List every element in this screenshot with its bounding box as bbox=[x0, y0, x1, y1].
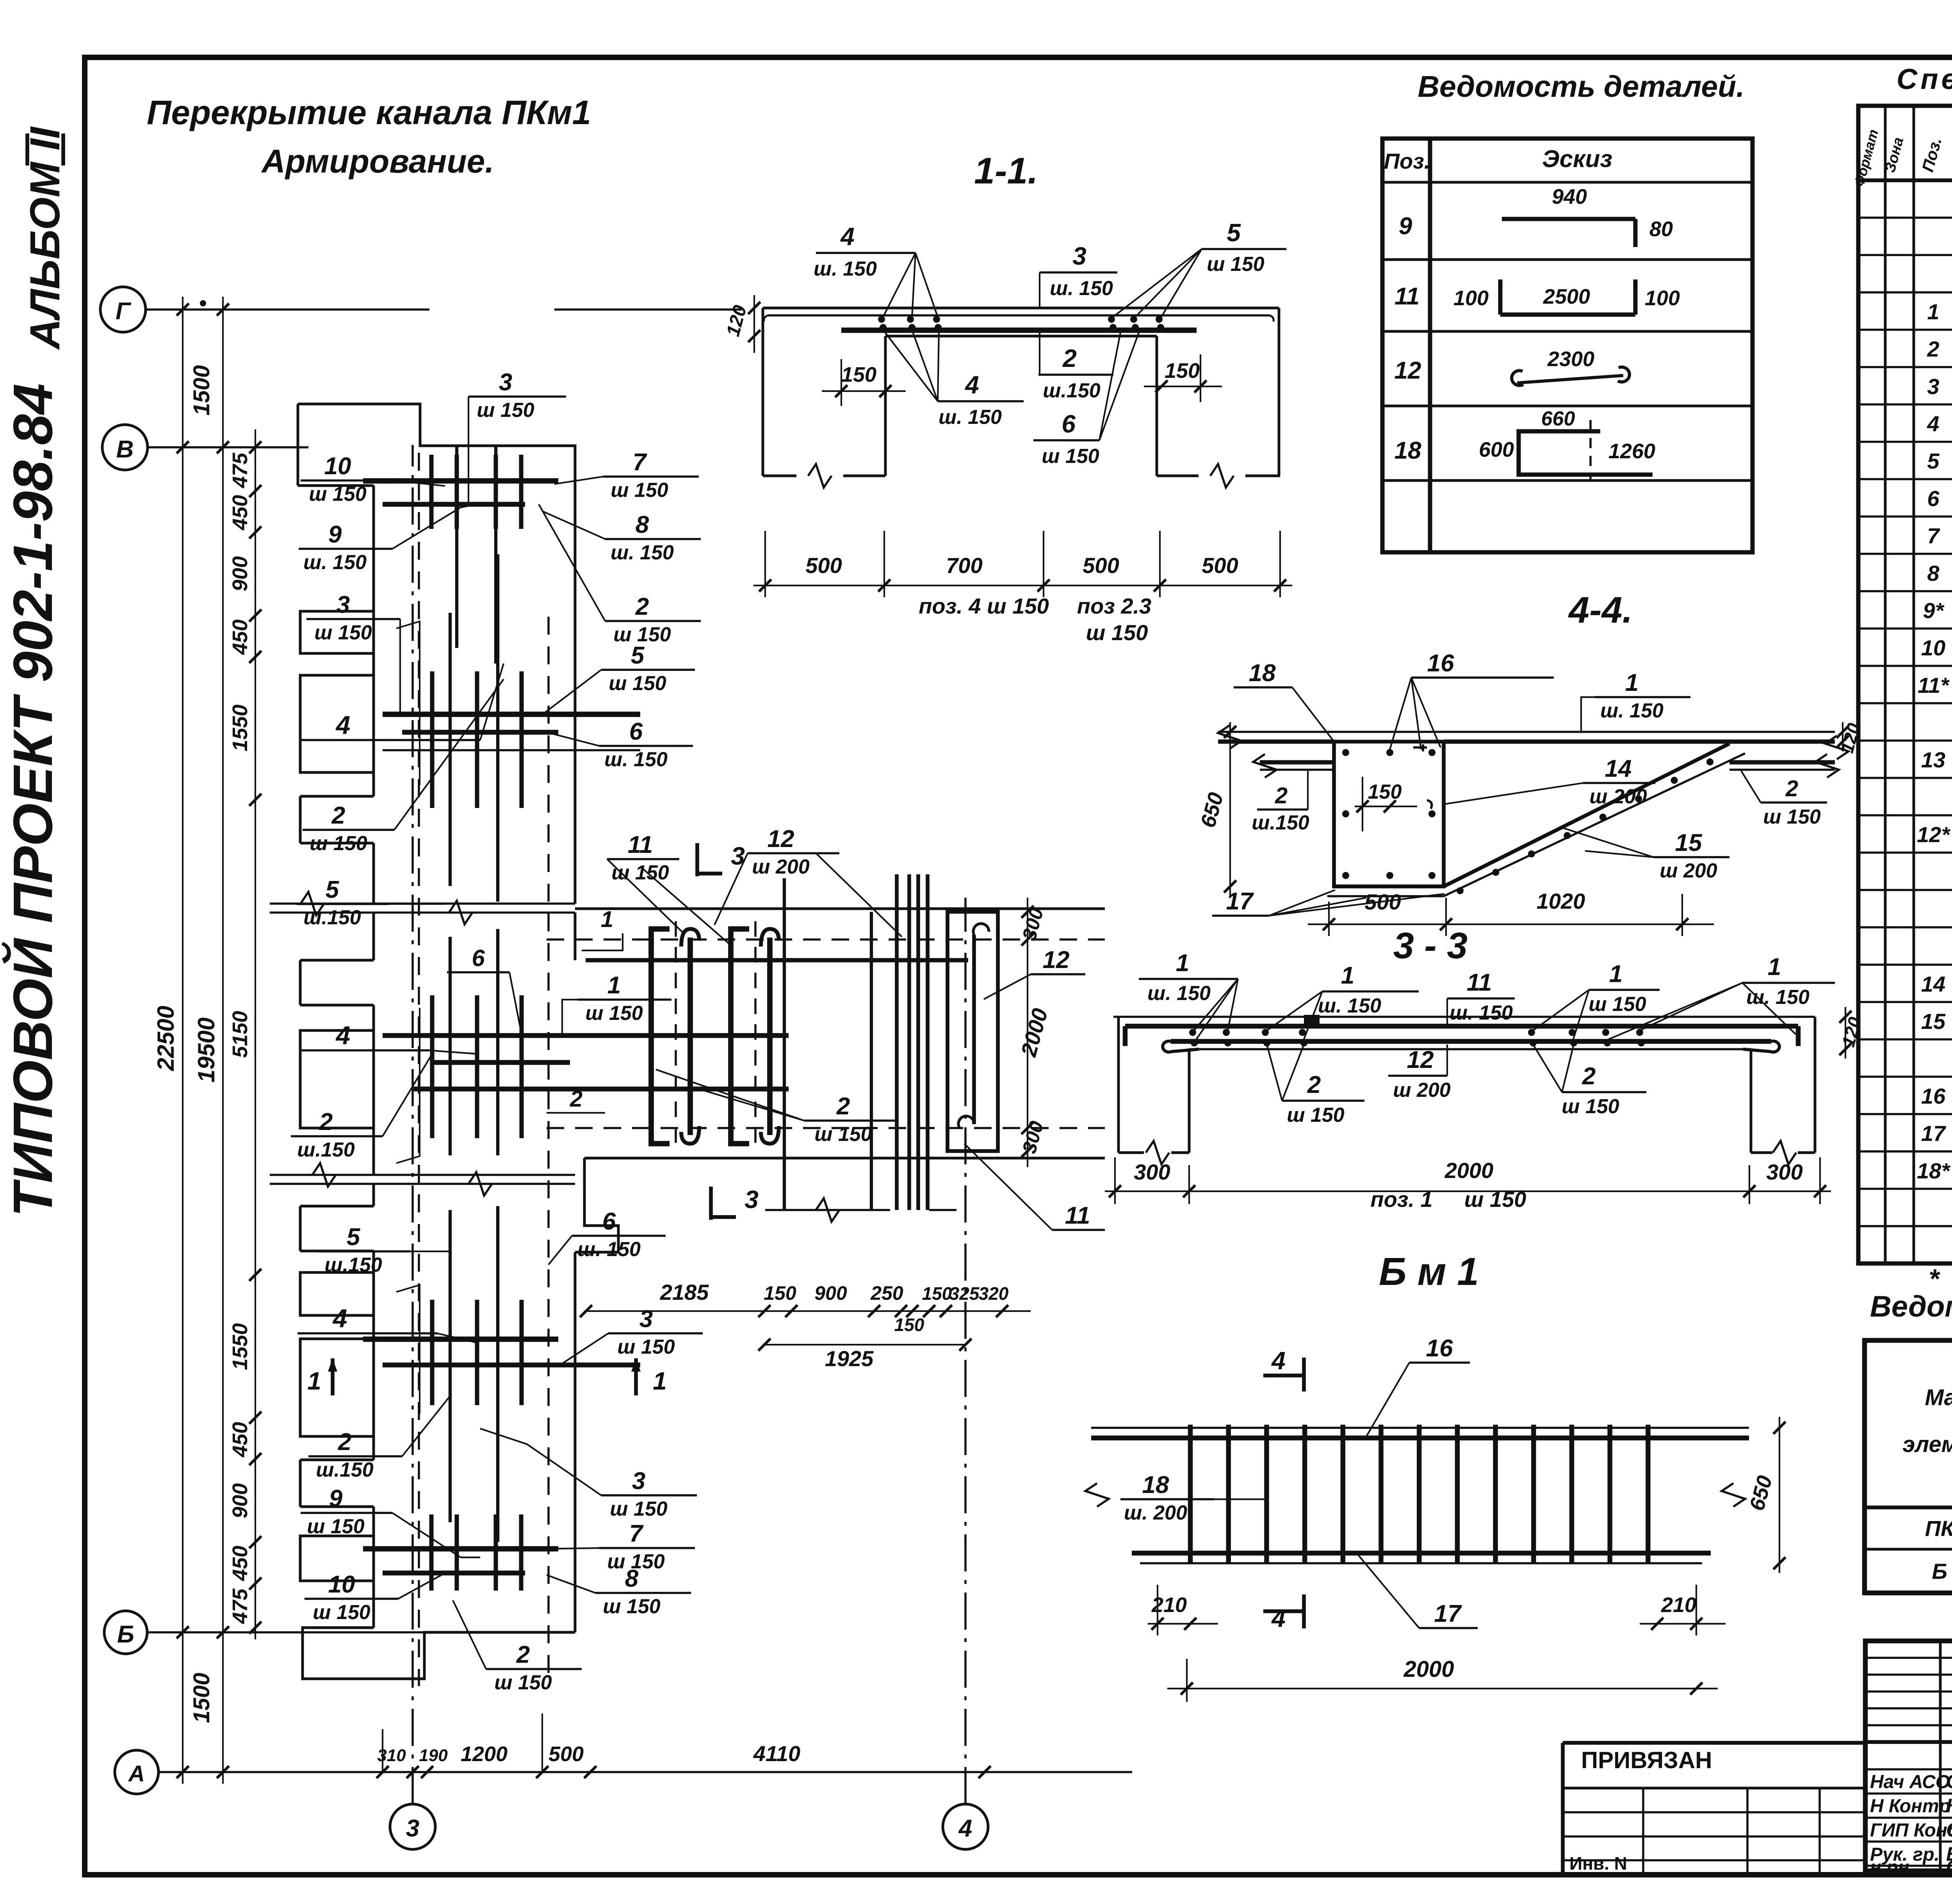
svg-text:Г: Г bbox=[116, 298, 132, 325]
section 3-3 top bar with end bends bbox=[1125, 1024, 1798, 1029]
section 1-1 top rebar thin bbox=[768, 314, 1270, 317]
svg-text:4: 4 bbox=[964, 371, 979, 399]
svg-text:ш. 150: ш. 150 bbox=[814, 258, 877, 280]
svg-text:1550: 1550 bbox=[228, 1323, 252, 1370]
beam box stirrup marks bbox=[1413, 744, 1427, 751]
svg-text:ш 150: ш 150 bbox=[309, 483, 367, 505]
svg-text:11: 11 bbox=[628, 831, 653, 858]
dimension line 19500 bbox=[222, 297, 224, 1784]
svg-text:100: 100 bbox=[1645, 286, 1680, 310]
svg-text:300: 300 bbox=[1018, 906, 1048, 943]
svg-text:5150: 5150 bbox=[228, 1011, 252, 1058]
svg-text:940: 940 bbox=[1552, 185, 1587, 208]
svg-text:ш 150: ш 150 bbox=[1287, 1104, 1345, 1126]
svg-text:650: 650 bbox=[1745, 1473, 1777, 1513]
svg-text:300: 300 bbox=[1018, 1119, 1048, 1156]
svg-text:4: 4 bbox=[1927, 411, 1939, 436]
svg-text:1: 1 bbox=[1768, 954, 1781, 980]
section 1-1 wall bottom cuts bbox=[763, 475, 796, 477]
Bm1 dimension 650 bbox=[1779, 1417, 1780, 1573]
svg-text:900: 900 bbox=[814, 1282, 847, 1304]
svg-text:12*: 12* bbox=[1917, 822, 1950, 847]
svg-text:ш. 150: ш. 150 bbox=[303, 551, 367, 574]
extension bottom break bbox=[816, 1198, 839, 1222]
svg-text:1020: 1020 bbox=[1537, 889, 1585, 913]
dimension 2185 row bbox=[584, 1310, 1031, 1312]
section 3-3 slab bottom edge bbox=[1189, 1048, 1751, 1050]
Bm1 bottom chord bbox=[1132, 1551, 1711, 1555]
svg-text:5: 5 bbox=[1227, 219, 1241, 247]
svg-text:Инв. N: Инв. N bbox=[1569, 1853, 1627, 1874]
svg-text:ш 150: ш 150 bbox=[1589, 993, 1646, 1016]
svg-text:16: 16 bbox=[1426, 1335, 1453, 1362]
svg-text:18: 18 bbox=[1249, 660, 1276, 687]
svg-text:4: 4 bbox=[335, 1021, 351, 1050]
plan outline left wall upper bbox=[297, 404, 299, 486]
axis line A / bottom dimension line bbox=[159, 1771, 1132, 1773]
Bm1 dimension 210 left bbox=[1148, 1623, 1218, 1625]
svg-text:500: 500 bbox=[1364, 890, 1401, 914]
svg-text:12: 12 bbox=[768, 826, 794, 852]
svg-text:Н Контр: Н Контр bbox=[1870, 1796, 1950, 1817]
svg-text:4110: 4110 bbox=[753, 1741, 800, 1766]
svg-text:660: 660 bbox=[1541, 407, 1575, 430]
svg-text:ш. 150: ш. 150 bbox=[1050, 277, 1113, 300]
svg-text:150: 150 bbox=[894, 1315, 924, 1335]
rebar cluster upper middle bbox=[383, 712, 640, 717]
svg-text:1: 1 bbox=[1927, 299, 1939, 324]
svg-text:19500: 19500 bbox=[193, 1018, 219, 1083]
svg-text:ш 150: ш 150 bbox=[610, 1498, 668, 1520]
axis circle 4 bottom bbox=[943, 1804, 988, 1849]
axis 3 center line bbox=[411, 445, 414, 1804]
rebar cluster at axis V bbox=[363, 478, 558, 484]
break line upper (5150 gap) bbox=[270, 902, 575, 905]
svg-text:н рн: н рн bbox=[1870, 1857, 1909, 1878]
axis line B bbox=[147, 1631, 429, 1634]
hook details small bbox=[396, 621, 420, 785]
axis circle G bbox=[100, 287, 146, 332]
svg-text:2: 2 bbox=[331, 802, 345, 829]
strip dashed channel walls bbox=[418, 453, 420, 1686]
svg-text:3: 3 bbox=[1927, 374, 1939, 399]
svg-text:ш 200: ш 200 bbox=[1393, 1079, 1451, 1101]
svg-text:2000: 2000 bbox=[1403, 1657, 1454, 1682]
svg-text:2500: 2500 bbox=[1543, 285, 1590, 308]
dimension 120 sec33 right bbox=[1845, 1007, 1846, 1059]
svg-text:500: 500 bbox=[805, 553, 842, 578]
section 1-1 thick bar pos2 bbox=[841, 327, 1197, 333]
svg-text:7: 7 bbox=[629, 1520, 644, 1547]
svg-text:3: 3 bbox=[406, 1815, 419, 1842]
svg-text:2: 2 bbox=[1275, 783, 1288, 808]
svg-text:ш. 150: ш. 150 bbox=[1147, 982, 1211, 1005]
svg-text:Б м 1: Б м 1 bbox=[1379, 1250, 1479, 1294]
svg-text:Семенов: Семенов bbox=[1946, 1856, 1952, 1878]
section 4-4 right lower slab lines bbox=[1729, 760, 1835, 764]
svg-text:ш.150: ш.150 bbox=[324, 1254, 382, 1276]
svg-text:11: 11 bbox=[1395, 283, 1419, 310]
svg-text:18*: 18* bbox=[1917, 1158, 1950, 1183]
svg-text:Ведомость деталей.: Ведомость деталей. bbox=[1418, 70, 1744, 103]
svg-text:100: 100 bbox=[1453, 286, 1489, 310]
svg-text:9*: 9* bbox=[1923, 598, 1945, 623]
dimension chain 475-450-900-450-1550-5150 bbox=[255, 429, 256, 1639]
svg-text:150: 150 bbox=[764, 1282, 796, 1304]
svg-text:500: 500 bbox=[1202, 553, 1238, 578]
svg-text:9: 9 bbox=[329, 1485, 343, 1512]
svg-text:10: 10 bbox=[328, 1571, 355, 1598]
svg-text:4: 4 bbox=[958, 1815, 972, 1842]
svg-text:Марка: Марка bbox=[1925, 1385, 1952, 1410]
svg-text:2: 2 bbox=[570, 1086, 582, 1112]
svg-text:310: 310 bbox=[377, 1746, 406, 1765]
svg-text:5: 5 bbox=[1927, 449, 1940, 473]
svg-text:А: А bbox=[128, 1761, 145, 1787]
svg-text:6: 6 bbox=[602, 1208, 616, 1235]
svg-text:ш 150: ш 150 bbox=[314, 621, 372, 644]
svg-text:9: 9 bbox=[1399, 213, 1412, 240]
svg-text:13: 13 bbox=[1921, 747, 1945, 772]
Bm1 top chord bbox=[1091, 1427, 1749, 1429]
section 4-4 lower ledge left bbox=[1260, 760, 1334, 764]
section 4-4 bottom dimensions bbox=[1308, 924, 1714, 925]
svg-text:1: 1 bbox=[307, 1367, 321, 1395]
svg-text:150: 150 bbox=[1165, 359, 1200, 383]
dimension 650 sec44 bbox=[1229, 722, 1231, 898]
svg-text:8: 8 bbox=[1927, 561, 1940, 585]
svg-text:ш. 150: ш. 150 bbox=[1600, 699, 1663, 722]
svg-text:*: * bbox=[1929, 1263, 1940, 1294]
svg-text:3: 3 bbox=[1072, 242, 1086, 270]
svg-text:ш. 150: ш. 150 bbox=[1450, 1002, 1513, 1024]
svg-text:4: 4 bbox=[335, 710, 351, 739]
axis circle V bbox=[102, 425, 148, 470]
svg-text:ш 200: ш 200 bbox=[752, 856, 810, 878]
svg-text:ш 150: ш 150 bbox=[1086, 620, 1148, 645]
dimension 1925 row bbox=[764, 1344, 965, 1345]
svg-text:475: 475 bbox=[228, 1588, 252, 1624]
svg-text:11: 11 bbox=[1065, 1202, 1090, 1229]
svg-text:900: 900 bbox=[228, 1483, 252, 1518]
svg-text:ПК м 1: ПК м 1 bbox=[1925, 1516, 1952, 1541]
details table grid bbox=[1382, 139, 1753, 552]
rebar cluster bottom bbox=[363, 1546, 558, 1552]
svg-text:500: 500 bbox=[1083, 553, 1119, 578]
svg-text:Б м 1: Б м 1 bbox=[1932, 1559, 1952, 1584]
section mark 1 right bbox=[634, 1358, 638, 1395]
svg-text:900: 900 bbox=[228, 556, 252, 591]
svg-text:2: 2 bbox=[836, 1093, 850, 1120]
plan bottom outline bbox=[303, 1628, 575, 1679]
svg-text:300: 300 bbox=[1766, 1160, 1802, 1184]
svg-text:Б: Б bbox=[117, 1621, 134, 1648]
title block left grid bbox=[1939, 1641, 1942, 1871]
svg-text:11: 11 bbox=[1467, 969, 1492, 996]
axis line G bbox=[146, 308, 429, 311]
svg-text:ш.150: ш.150 bbox=[297, 1139, 355, 1161]
svg-text:4: 4 bbox=[840, 222, 855, 251]
section mark 3 mid upper bbox=[695, 843, 699, 876]
section 3-3 rebar dots bbox=[1189, 1029, 1196, 1036]
svg-text:150: 150 bbox=[1368, 781, 1402, 803]
title block big cell line bbox=[1865, 1740, 1952, 1744]
extension dashed verticals bbox=[675, 921, 677, 1144]
svg-text:Спецификация на монолитные: Спецификация на монолитные изделия. bbox=[1897, 63, 1952, 95]
svg-text:10: 10 bbox=[1921, 635, 1945, 660]
Bm1 dimension 2000 bbox=[1167, 1688, 1718, 1689]
section mark 3 mid lower bbox=[709, 1187, 713, 1220]
svg-text:ТИПОВОЙ ПРОЕКТ 902-1-98.84: ТИПОВОЙ ПРОЕКТ 902-1-98.84 bbox=[1, 383, 64, 1217]
extension bottom edge bbox=[584, 1157, 1105, 1160]
svg-text:ш 150: ш 150 bbox=[617, 1336, 675, 1358]
svg-text:2: 2 bbox=[635, 593, 649, 620]
svg-text:14: 14 bbox=[1605, 755, 1632, 782]
svg-text:2000: 2000 bbox=[1016, 1006, 1052, 1060]
dimension line 22500 bbox=[182, 297, 183, 1784]
svg-text:210: 210 bbox=[1661, 1593, 1696, 1617]
svg-text:1: 1 bbox=[1625, 669, 1639, 696]
svg-text:450: 450 bbox=[228, 1422, 252, 1457]
svg-text:450: 450 bbox=[228, 495, 252, 530]
svg-text:450: 450 bbox=[228, 1546, 252, 1581]
privyazan grid bbox=[1563, 1787, 1865, 1790]
svg-text:Поз.: Поз. bbox=[1384, 149, 1430, 173]
axis circle B bbox=[104, 1611, 147, 1654]
svg-text:120: 120 bbox=[723, 303, 751, 338]
svg-text:2: 2 bbox=[1927, 337, 1939, 361]
svg-text:22500: 22500 bbox=[153, 1006, 179, 1071]
svg-text:2: 2 bbox=[1307, 1071, 1321, 1098]
svg-text:15: 15 bbox=[1921, 1009, 1946, 1034]
section 3-3 bottom dimension bbox=[1105, 1190, 1831, 1192]
svg-text:1: 1 bbox=[1609, 961, 1623, 988]
svg-text:2: 2 bbox=[1062, 344, 1077, 372]
svg-text:5: 5 bbox=[631, 642, 645, 669]
svg-text:600: 600 bbox=[1479, 438, 1514, 461]
svg-text:ш. 150: ш. 150 bbox=[577, 1238, 641, 1261]
svg-text:18: 18 bbox=[1395, 437, 1421, 464]
svg-text:Эскиз: Эскиз bbox=[1542, 146, 1612, 173]
svg-text:ш.150: ш.150 bbox=[1043, 379, 1101, 402]
svg-text:80: 80 bbox=[1649, 217, 1673, 241]
svg-text:ш 150: ш 150 bbox=[1763, 806, 1821, 828]
Bm1 section mark 4 bottom bbox=[1302, 1594, 1306, 1628]
beam box corner dots bbox=[1342, 749, 1349, 756]
svg-text:2: 2 bbox=[1582, 1063, 1596, 1090]
svg-text:поз. 4 ш 150: поз. 4 ш 150 bbox=[919, 594, 1049, 618]
svg-text:1: 1 bbox=[607, 972, 621, 999]
svg-text:320: 320 bbox=[979, 1283, 1009, 1304]
extension dashed inner top bbox=[547, 938, 1105, 941]
svg-text:3: 3 bbox=[337, 591, 350, 618]
Bm1 dimension 210 right bbox=[1640, 1623, 1726, 1625]
left teeth notches upper bbox=[372, 486, 375, 611]
svg-text:8: 8 bbox=[636, 511, 649, 538]
dimension 120 sec44 right bbox=[1842, 722, 1843, 751]
svg-text:ш 150: ш 150 bbox=[603, 1595, 661, 1618]
svg-text:ш.150: ш.150 bbox=[1252, 811, 1309, 834]
details row 11 sketch U-bar bbox=[1500, 312, 1635, 317]
svg-text:Сорокин: Сорокин bbox=[1946, 1771, 1952, 1792]
svg-text:5: 5 bbox=[347, 1224, 361, 1251]
svg-text:1925: 1925 bbox=[825, 1346, 874, 1371]
svg-text:ПРИВЯЗАН: ПРИВЯЗАН bbox=[1581, 1747, 1712, 1773]
section 3-3 bottom bar with loop hooks bbox=[1171, 1039, 1771, 1044]
svg-text:150: 150 bbox=[922, 1283, 952, 1304]
break line lower bbox=[270, 1174, 575, 1176]
svg-text:Нач АСО: Нач АСО bbox=[1870, 1772, 1950, 1792]
svg-text:12: 12 bbox=[1395, 357, 1421, 384]
section 4-4 slab lines bbox=[1218, 731, 1835, 733]
svg-text:поз 2.3: поз 2.3 bbox=[1077, 594, 1151, 618]
svg-text:8: 8 bbox=[625, 1565, 639, 1592]
details row 18 sketch bent bar bbox=[1519, 431, 1653, 475]
axis circle A bbox=[115, 1750, 159, 1794]
svg-text:поз. 1: поз. 1 bbox=[1370, 1187, 1432, 1212]
svg-text:1260: 1260 bbox=[1608, 440, 1655, 463]
svg-text:11*: 11* bbox=[1918, 673, 1950, 698]
svg-text:1: 1 bbox=[1176, 950, 1189, 977]
steel table grid bbox=[1865, 1340, 1952, 1593]
stirrup frame 2 with hooks bbox=[731, 929, 749, 1144]
svg-text:9: 9 bbox=[328, 521, 342, 548]
section 1-1 wall inner faces bbox=[884, 336, 887, 476]
extension horizontal bars bbox=[586, 958, 968, 962]
svg-text:2185: 2185 bbox=[660, 1280, 709, 1304]
svg-text:1550: 1550 bbox=[228, 705, 252, 751]
svg-text:17: 17 bbox=[1921, 1121, 1947, 1146]
plan outline upper block bbox=[298, 404, 575, 904]
svg-text:16: 16 bbox=[1921, 1084, 1946, 1108]
section 1-1 bottom dimension line bbox=[753, 585, 1292, 586]
svg-text:650: 650 bbox=[1196, 790, 1228, 830]
svg-text:ш 200: ш 200 bbox=[1660, 859, 1717, 882]
svg-text:210: 210 bbox=[1151, 1593, 1187, 1617]
svg-text:ш. 150: ш. 150 bbox=[1746, 986, 1810, 1009]
svg-text:3 - 3: 3 - 3 bbox=[1393, 925, 1468, 966]
plan outline lower block bbox=[372, 1184, 375, 1206]
svg-text:2: 2 bbox=[516, 1641, 530, 1668]
svg-text:ш 150: ш 150 bbox=[585, 1002, 643, 1025]
svg-text:ш.150: ш.150 bbox=[303, 906, 361, 929]
plan right edge lower bbox=[574, 1252, 577, 1632]
svg-text:1: 1 bbox=[601, 907, 613, 932]
svg-text:ш 150: ш 150 bbox=[313, 1601, 370, 1624]
svg-text:ш 150: ш 150 bbox=[307, 1515, 365, 1538]
section 3-3 right wall bbox=[1814, 1017, 1817, 1153]
axis circle 3 bottom bbox=[390, 1804, 435, 1849]
svg-text:12: 12 bbox=[1407, 1046, 1434, 1073]
svg-text:7: 7 bbox=[1927, 523, 1940, 548]
svg-text:3: 3 bbox=[632, 1468, 645, 1495]
svg-text:1-1.: 1-1. bbox=[974, 150, 1038, 192]
svg-text:3: 3 bbox=[744, 1185, 759, 1214]
svg-text:4: 4 bbox=[1271, 1604, 1286, 1632]
svg-text:ш.150: ш.150 bbox=[316, 1459, 374, 1481]
privyazan box bbox=[1563, 1741, 1865, 1745]
svg-text:475: 475 bbox=[228, 452, 252, 488]
svg-text:17: 17 bbox=[1434, 1600, 1462, 1627]
section 3-3 left wall bbox=[1117, 1017, 1120, 1153]
svg-text:ш. 150: ш. 150 bbox=[939, 406, 1002, 429]
svg-text:2: 2 bbox=[1785, 776, 1798, 801]
section 4-4 sloped bars bbox=[1444, 744, 1729, 886]
svg-text:ш 150: ш 150 bbox=[1042, 445, 1099, 468]
svg-text:7: 7 bbox=[633, 449, 647, 476]
section 4-4 beam box bbox=[1334, 742, 1444, 886]
svg-text:10: 10 bbox=[324, 453, 351, 480]
svg-text:14: 14 bbox=[1921, 972, 1945, 996]
svg-text:6: 6 bbox=[629, 718, 643, 745]
axis 4 center line bbox=[964, 898, 967, 1804]
svg-text:1200: 1200 bbox=[461, 1742, 508, 1766]
section 1-1 rebar dots bbox=[878, 316, 885, 323]
svg-text:В: В bbox=[116, 436, 134, 463]
section 1-1 slab outline bbox=[763, 307, 1279, 310]
bar 12 rectangle right bbox=[948, 912, 998, 1151]
extension top edge bbox=[575, 908, 1105, 910]
svg-text:Перекрытие канала ПКм1: Перекрытие канала ПКм1 bbox=[147, 94, 591, 132]
svg-text:325: 325 bbox=[949, 1283, 980, 1304]
svg-text:3: 3 bbox=[499, 369, 512, 396]
svg-text:ш 150: ш 150 bbox=[814, 1123, 872, 1146]
svg-text:700: 700 bbox=[946, 553, 982, 578]
specification table bbox=[1858, 106, 1952, 1263]
Bm1 end breaks bbox=[1085, 1483, 1109, 1507]
extension long vertical bars bbox=[783, 878, 786, 1210]
bar 12 hook bar inside bbox=[972, 935, 976, 1124]
svg-text:Армирование.: Армирование. bbox=[261, 143, 494, 180]
plan outline middle block bbox=[372, 913, 375, 960]
svg-text:1: 1 bbox=[1341, 962, 1354, 989]
svg-text:5: 5 bbox=[326, 876, 340, 903]
svg-text:ш 150: ш 150 bbox=[310, 832, 367, 855]
svg-text:12: 12 bbox=[1043, 947, 1070, 973]
axis line V bbox=[148, 446, 308, 448]
svg-text:ш 150: ш 150 bbox=[1464, 1187, 1526, 1212]
svg-text:1: 1 bbox=[653, 1367, 667, 1395]
svg-text:2: 2 bbox=[319, 1109, 333, 1135]
svg-text:элемента: элемента bbox=[1902, 1432, 1952, 1457]
extension right dimension 300-2000-300 bbox=[1027, 898, 1028, 1167]
section 1-1 slab bottom mid span bbox=[885, 335, 1157, 338]
svg-text:ш 150: ш 150 bbox=[1207, 253, 1265, 276]
svg-text:4: 4 bbox=[1271, 1347, 1286, 1375]
stirrup frame 1 with hooks bbox=[651, 929, 670, 1144]
section 4-4 bottom edge below box bbox=[1334, 884, 1444, 888]
svg-text:4: 4 bbox=[332, 1304, 347, 1333]
svg-text:ш. 150: ш. 150 bbox=[1318, 995, 1381, 1017]
svg-text:ш 150: ш 150 bbox=[611, 479, 668, 502]
svg-text:ш 150: ш 150 bbox=[1562, 1095, 1619, 1118]
svg-text:6: 6 bbox=[1927, 486, 1940, 511]
svg-text:ш 150: ш 150 bbox=[477, 399, 534, 422]
svg-text:6: 6 bbox=[472, 945, 485, 971]
Bm1 section mark 4 top bbox=[1302, 1358, 1306, 1392]
plan right edge middle bbox=[574, 913, 577, 960]
svg-text:2300: 2300 bbox=[1547, 347, 1594, 371]
svg-text:Ковалинина: Ковалинина bbox=[1946, 1795, 1952, 1817]
svg-text:ш. 200: ш. 200 bbox=[1124, 1502, 1187, 1524]
svg-text:ш. 150: ш. 150 bbox=[611, 541, 674, 564]
svg-text:ш 150: ш 150 bbox=[609, 672, 666, 695]
svg-text:Обух: Обух bbox=[1946, 1819, 1952, 1841]
svg-text:300: 300 bbox=[1134, 1160, 1170, 1184]
svg-text:1500: 1500 bbox=[189, 365, 214, 415]
svg-text:18: 18 bbox=[1142, 1472, 1169, 1498]
details row 12 sketch bar with hooks bbox=[1512, 370, 1523, 385]
